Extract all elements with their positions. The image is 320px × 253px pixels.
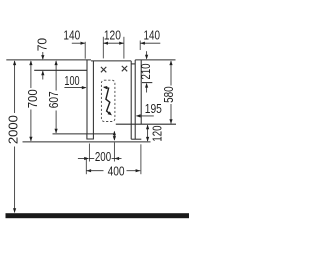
svg-text:400: 400 [108, 165, 125, 179]
left wall outer edge [86, 60, 88, 134]
floor line [6, 213, 190, 218]
dimension 120 top [103, 28, 124, 44]
electrical zone dashed box [101, 80, 115, 121]
right wall inner edge [140, 60, 142, 124]
wall top line left [6, 59, 91, 61]
double arrow gap indicator [113, 131, 116, 141]
dimension 140 left [63, 28, 85, 44]
dimension 210 [139, 51, 153, 92]
right wall outer edge [134, 60, 136, 139]
dimension 100 [64, 74, 86, 89]
svg-text:140: 140 [63, 28, 80, 42]
dimension 2000 [7, 60, 21, 213]
mounting point x left [101, 67, 106, 72]
svg-text:200: 200 [95, 150, 111, 164]
rung right step [131, 63, 135, 65]
svg-text:210: 210 [139, 63, 153, 79]
niche bottom left shelf [53, 133, 114, 135]
niche box top edge [91, 60, 131, 62]
dimension 607 [47, 60, 61, 133]
svg-text:100: 100 [64, 74, 79, 88]
dimension 195 [136, 102, 162, 118]
svg-text:195: 195 [145, 102, 162, 116]
svg-text:2000: 2000 [7, 115, 21, 144]
wall top line right [135, 59, 175, 61]
bottom of right wall [131, 138, 141, 140]
svg-text:140: 140 [144, 28, 161, 42]
ref line 210 [142, 82, 152, 84]
svg-text:70: 70 [35, 38, 49, 51]
tab below shelf [87, 134, 94, 139]
dimension 580 [162, 60, 176, 124]
svg-text:580: 580 [162, 86, 176, 103]
mounting point x right [122, 66, 127, 71]
dimension 200 [78, 150, 122, 164]
dimension 120 right [146, 125, 165, 142]
dimension 700 [26, 60, 40, 141]
dimension 70 [35, 38, 49, 80]
lightning bolt [103, 86, 112, 115]
svg-text:607: 607 [47, 91, 61, 108]
extension lines [85, 37, 141, 174]
svg-text:120: 120 [104, 28, 121, 42]
box right edge [130, 61, 132, 139]
lower edge line [23, 141, 151, 143]
niche bottom right shelf [116, 123, 176, 125]
dimension 400 [86, 165, 140, 179]
dimension 140 right [140, 28, 160, 44]
svg-text:120: 120 [151, 126, 165, 142]
mounting rail line [34, 69, 87, 71]
svg-text:700: 700 [26, 89, 40, 108]
left wall inner edge / box left [92, 61, 94, 134]
